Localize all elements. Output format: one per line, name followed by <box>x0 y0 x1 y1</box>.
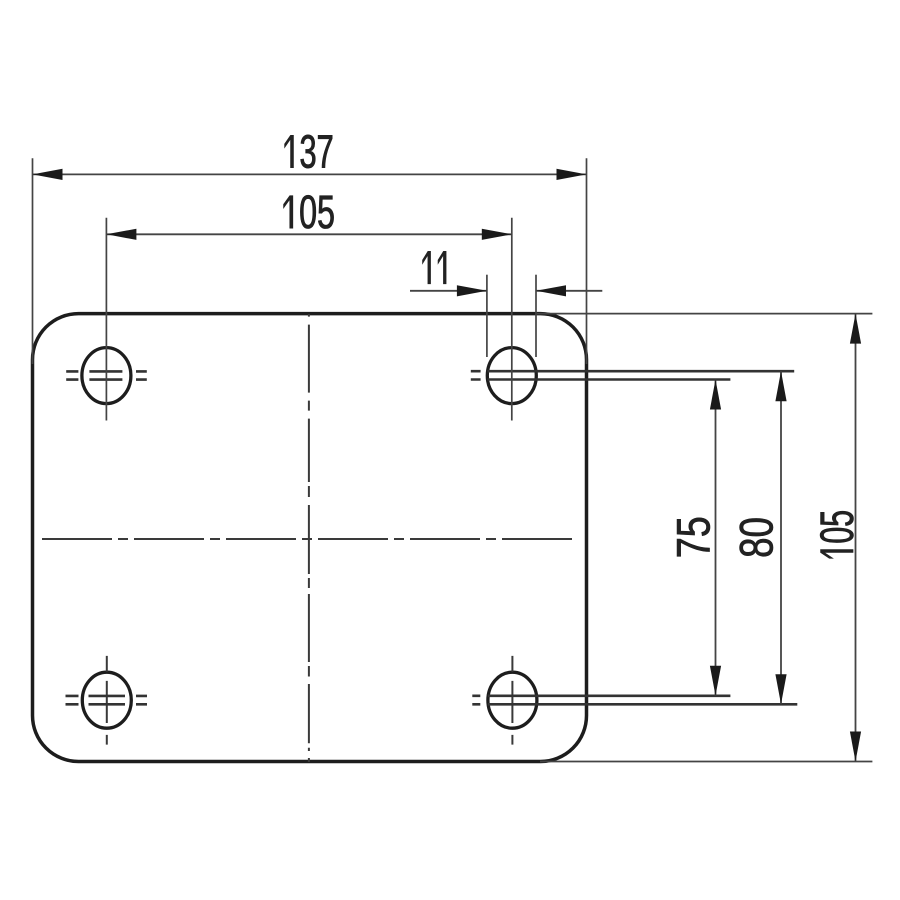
slot position marks bottom-right hole + extension to 75/80 dims <box>472 696 797 705</box>
label 137 <box>285 135 333 168</box>
arrowhead 105v top <box>850 314 861 344</box>
centerline bottom-right hole <box>511 656 513 745</box>
arrowhead 137 right <box>557 169 587 180</box>
extension line top edge (105 vert) <box>537 313 872 315</box>
hole top-left <box>82 348 131 404</box>
dimension line 75 <box>715 380 717 696</box>
extension line right (105) / centerline top-right hole <box>511 218 513 421</box>
extension line left (105) / centerline top-left hole <box>105 218 107 421</box>
label 105 top <box>284 195 334 228</box>
dimension line 137 <box>33 173 587 175</box>
extension line hole right edge (11) <box>535 275 537 357</box>
hole bottom-left <box>82 672 131 728</box>
arrowhead 105 left <box>106 229 136 240</box>
arrowhead 75 bottom <box>710 666 721 696</box>
label 105 vertical <box>820 511 853 558</box>
arrowhead 75 top <box>710 380 721 410</box>
dimension line 105 vertical <box>855 314 857 762</box>
arrowhead 105 right <box>482 229 512 240</box>
arrowhead 11 left (pointing right) <box>457 285 487 296</box>
extension line right (137) <box>586 158 588 364</box>
label 11 <box>423 251 447 283</box>
slot position marks top-right hole + extension to 80/75 dims <box>471 371 794 379</box>
slot position marks bottom-left hole <box>66 696 148 704</box>
extension line bottom edge (105 vert) <box>540 761 872 763</box>
arrowhead 80 bottom <box>775 674 786 704</box>
dimension line 11 right shaft <box>536 290 602 292</box>
centerline bottom-left hole <box>106 656 108 745</box>
label 75 <box>677 518 710 557</box>
arrowhead 137 left <box>33 169 63 180</box>
arrowhead 11 right (pointing left) <box>536 285 566 296</box>
horizontal centerline of plate <box>42 538 573 540</box>
plate outline <box>33 314 587 762</box>
dimension line 105 top <box>106 233 511 235</box>
hole top-right <box>487 348 536 404</box>
hole bottom-right <box>488 672 537 728</box>
dimension line 11 left shaft <box>410 290 487 292</box>
extension line hole left edge (11) <box>486 275 488 357</box>
arrowhead 80 top <box>775 371 786 401</box>
dimension line 80 <box>780 371 782 704</box>
slot position marks top-left hole <box>66 371 147 379</box>
label 80 <box>740 519 773 557</box>
vertical centerline of plate <box>308 314 310 762</box>
extension line left (137) <box>32 158 34 364</box>
arrowhead 105v bottom <box>850 732 861 762</box>
